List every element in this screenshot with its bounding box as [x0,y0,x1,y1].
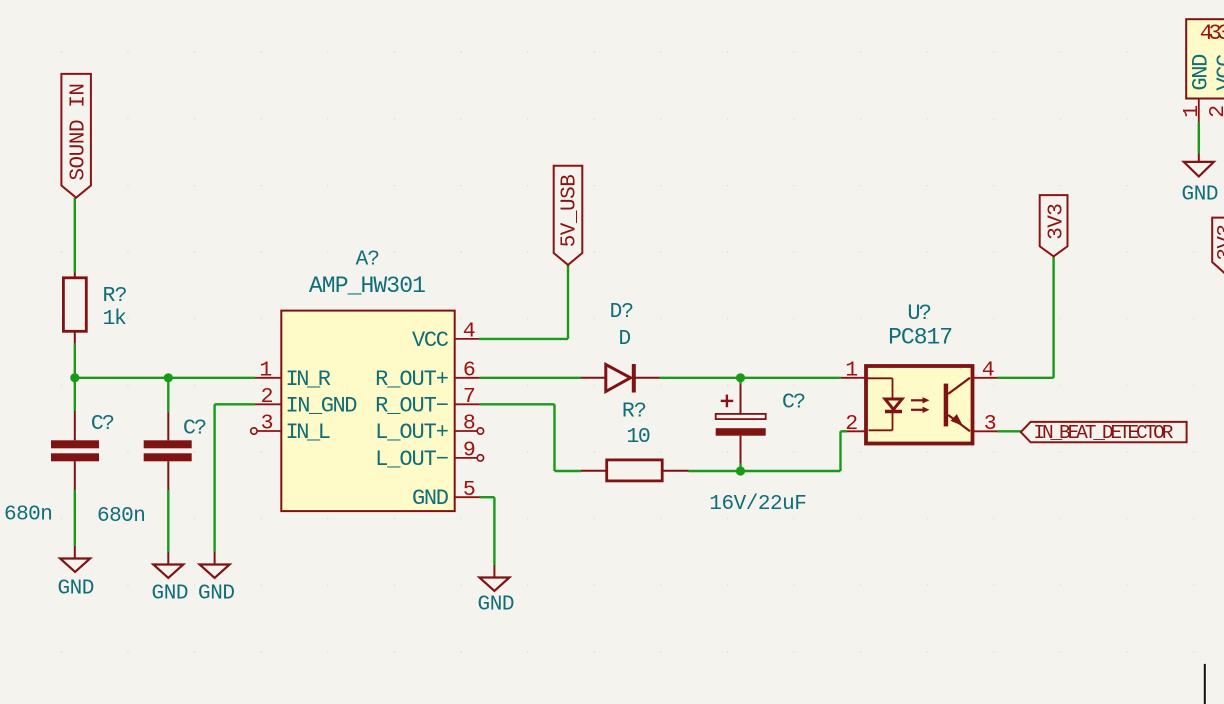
svg-text:GND: GND [1188,54,1213,91]
wire node A to C1 [74,378,76,411]
RF module 433 body (partial) [1186,19,1224,98]
svg-text:U?: U? [907,301,932,326]
wire C3 to node D [739,463,741,471]
global label 5V_USB [554,166,583,265]
amplifier A? fields [309,249,426,299]
junction node D [736,466,745,475]
svg-text:1: 1 [1180,105,1204,118]
global label IN_BEAT_DETECTOR [1021,422,1187,442]
wire node A to pin 1 IN_R [75,377,255,379]
wire opto pin 4 horizontal [998,377,1054,379]
svg-text:L_OUT+: L_OUT+ [375,420,449,445]
wire pin 7 R_OUT- horizontal [480,403,555,405]
svg-text:C?: C? [91,412,115,436]
wire pin 2 IN_GND horizontal [215,403,255,405]
svg-text:433MHZ: 433MHZ [1200,21,1224,46]
ground GND2 [152,552,189,605]
svg-text:VCC: VCC [1213,54,1224,91]
global label 3V3 bottom right (partial) [1212,218,1224,275]
svg-text:9: 9 [463,439,476,463]
svg-text:7: 7 [463,385,476,409]
svg-text:3V3: 3V3 [1046,203,1069,240]
svg-text:L_OUT−: L_OUT− [375,447,449,472]
svg-text:4: 4 [463,320,476,344]
svg-text:680n: 680n [4,503,53,526]
optocoupler phototransistor [944,378,970,432]
svg-text:3: 3 [261,412,274,436]
global label 3V3 [1040,195,1068,256]
wire C2 to GND [167,490,169,552]
wire pin 5 GND down [493,497,495,565]
wire R1 to node A [74,344,76,378]
RF module pin 1 [1180,99,1204,123]
wire pin 2 IN_GND to GND [213,404,215,552]
wire to opto pin 2 [841,430,848,432]
svg-text:2: 2 [261,385,274,409]
svg-text:IN_L: IN_L [286,420,331,445]
wire node C to C3 [739,378,741,385]
wire node D to opto pin 2 corner [741,470,841,472]
svg-text:GND: GND [198,582,235,605]
capacitor C1 fields [4,412,115,527]
wire node B to C2 [167,378,169,412]
pin 2 IN_GND [255,385,358,418]
pin 1 IN_R [255,358,331,391]
optocoupler pin 4 [973,358,998,382]
svg-text:4: 4 [982,358,995,382]
svg-text:R_OUT+: R_OUT+ [375,367,449,392]
wire RF module pin 1 to GND [1198,123,1200,154]
svg-text:GND: GND [1182,184,1219,207]
optocoupler fields U? PC817 [888,301,953,350]
optocoupler coupling arrows [911,397,930,413]
pin 5 GND [412,478,480,511]
resistor R? 10 [581,460,689,481]
resistor R? 1k [63,273,86,344]
svg-text:IN_GND: IN_GND [286,393,358,418]
pin 8 L_OUT+ [375,412,484,445]
wire VCC pin 4 horizontal [479,338,568,340]
svg-text:SOUND IN: SOUND IN [68,83,91,181]
resistor R? 10 fields [622,399,651,449]
svg-text:5V_USB: 5V_USB [559,174,582,247]
optocoupler internal LED [867,378,902,430]
svg-text:R?: R? [622,399,647,423]
svg-text:GND: GND [412,486,449,511]
svg-text:2: 2 [845,412,858,436]
optocoupler pin 2 [845,412,866,436]
amplifier A? AMP_HW301 body [281,311,454,512]
svg-text:PC817: PC817 [888,325,953,351]
wire C1 to GND [74,490,76,546]
capacitor C2 680n [144,412,192,490]
wire diode to opto pin 1 [660,377,841,379]
wire opto pin 4 to 3V3 [1052,256,1054,377]
svg-text:GND: GND [478,594,515,617]
diode fields D? D [610,301,634,351]
svg-text:8: 8 [463,412,476,436]
pin 7 R_OUT- [375,385,480,418]
junction node B [164,373,173,382]
polarized capacitor C? 16V/22uF [716,385,766,464]
wire R2 to node D [689,470,741,472]
wire pin 5 GND horizontal [480,496,495,498]
pin 6 R_OUT+ [375,358,480,391]
junction node C [736,373,745,382]
sheet border line bottom right [1204,664,1206,704]
optocoupler pin 1 [841,358,866,382]
pin 4 VCC [412,320,479,353]
junction node A [70,373,79,382]
svg-text:10: 10 [626,425,650,449]
svg-text:680n: 680n [97,505,146,528]
svg-text:D?: D? [610,301,634,324]
pin 3 IN_L [251,412,331,445]
svg-text:D: D [619,328,632,351]
svg-text:16V/22uF: 16V/22uF [709,493,807,516]
svg-text:3: 3 [984,412,997,436]
svg-text:3V3: 3V3 [1215,224,1224,261]
capacitor C1 680n [51,411,99,490]
optocoupler U? PC817 body [866,366,973,444]
svg-text:IN_R: IN_R [286,367,331,392]
svg-text:A?: A? [356,249,380,272]
optocoupler pin 3 [973,412,998,436]
ground GND4 under amplifier [478,565,515,617]
svg-text:R?: R? [103,284,128,308]
capacitor C2 fields [97,417,207,529]
svg-text:AMP_HW301: AMP_HW301 [309,273,426,299]
resistor R? 1k fields [103,284,128,331]
svg-text:1: 1 [845,358,858,382]
ground GND1 [57,546,94,601]
wire SOUND_IN to R1 [74,198,76,273]
wire up to opto pin 2 [839,431,841,471]
svg-text:5: 5 [463,478,476,502]
svg-text:GND: GND [57,578,94,601]
ground GND3 [198,552,235,605]
wire opto pin 3 to label [998,430,1022,432]
svg-text:1: 1 [259,358,272,382]
pin 9 L_OUT- [375,439,484,472]
ground GND5 top right [1182,153,1219,206]
svg-text:6: 6 [463,358,476,382]
svg-text:2: 2 [1206,105,1224,118]
wire VCC to 5V_USB [567,265,569,339]
svg-text:1k: 1k [103,307,127,331]
svg-text:C?: C? [183,417,207,441]
polarized capacitor fields [709,390,807,516]
svg-text:IN_BEAT_DETECTOR: IN_BEAT_DETECTOR [1033,422,1173,444]
diode D? D [581,364,660,393]
wire pin 6 R_OUT+ to diode [480,377,581,379]
svg-text:GND: GND [152,582,189,605]
svg-text:C?: C? [782,390,806,414]
global label SOUND IN [61,74,91,198]
wire pin 7 down [553,404,555,471]
wire to R2 left [555,470,582,472]
svg-text:VCC: VCC [412,328,449,353]
svg-text:R_OUT−: R_OUT− [375,393,449,418]
